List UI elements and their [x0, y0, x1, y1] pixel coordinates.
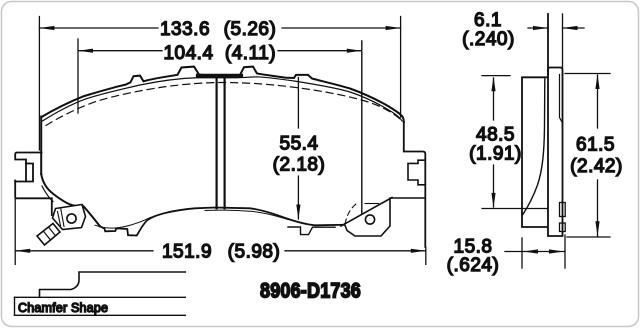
dim 151.9 arrows	[15, 249, 426, 253]
svg-text:(2.18): (2.18)	[273, 155, 326, 176]
svg-text:104.4: 104.4	[163, 43, 213, 64]
svg-text:133.6: 133.6	[160, 19, 210, 40]
wear sensor plate	[53, 205, 86, 230]
side view shim line	[560, 75, 563, 124]
chamfer profile	[40, 272, 186, 297]
dim 48.5 top extension	[482, 75, 510, 77]
dim 15.8 line	[505, 251, 565, 253]
pad bottom-left corner curve	[41, 174, 100, 226]
pad top apex thick bar	[198, 74, 241, 78]
svg-text:151.9: 151.9	[162, 242, 212, 263]
svg-text:48.5: 48.5	[476, 125, 515, 146]
friction corner dashed arc	[345, 204, 356, 224]
dim 15.8 arrows	[523, 249, 564, 253]
pad right edge	[404, 122, 426, 247]
svg-text:(.624): (.624)	[447, 255, 500, 276]
pad corner inner line	[42, 186, 53, 202]
svg-text:(.240): (.240)	[462, 29, 515, 50]
dim 133.6 left extension	[38, 17, 40, 151]
svg-text:55.4: 55.4	[280, 134, 319, 155]
svg-text:(5.26): (5.26)	[224, 19, 277, 40]
dim 104.4 line	[78, 50, 362, 52]
right inner step line	[390, 197, 425, 199]
dim 104.4 left extension	[77, 39, 79, 113]
svg-text:(5.98): (5.98)	[228, 242, 281, 263]
dim 61.5 line	[597, 75, 599, 236]
chamfer box left	[14, 297, 16, 315]
side view friction block	[522, 77, 548, 227]
wear sensor plate inner line	[58, 209, 65, 227]
dim 6.1 right extension	[562, 14, 564, 67]
dim 151.9 line	[15, 250, 426, 252]
right lug inner line	[365, 203, 379, 205]
side view backing plate	[548, 68, 563, 237]
left ear slot	[26, 164, 33, 182]
dim 6.1 left extension	[547, 14, 549, 67]
dim 6.1 arrows	[533, 26, 578, 30]
dim 61.5 bottom extension	[567, 236, 610, 238]
pad top edge inner line	[43, 77, 403, 121]
friction lower edge left	[95, 217, 151, 228]
lower-left step	[15, 181, 52, 216]
pad top hidden dashed line	[46, 83, 400, 126]
dim 133.6 right extension	[400, 17, 402, 118]
dim 48.5 line	[493, 78, 495, 207]
dim 48.5 bottom extension	[482, 208, 547, 210]
sensor crimp band slats	[44, 227, 56, 240]
dim 61.5 arrows	[595, 74, 599, 236]
dim 151.9 right extension	[425, 247, 427, 264]
right lug outline	[345, 199, 391, 236]
dim 133.6 arrows	[39, 26, 400, 30]
pad bottom edge	[100, 208, 345, 236]
side view friction curve	[523, 79, 545, 215]
dim 15.8 left extension	[521, 238, 523, 268]
dim 48.5 arrows	[491, 76, 495, 208]
pad bottom edge second line	[205, 210, 288, 219]
svg-text:Chamfer Shape: Chamfer Shape	[18, 301, 108, 315]
svg-text:(1.91): (1.91)	[469, 144, 522, 165]
dim 61.5 top extension	[565, 73, 610, 75]
friction bottom hidden edge	[288, 227, 335, 235]
center slot line right	[224, 77, 226, 209]
side view clip lower	[560, 223, 566, 232]
side view clip upper	[560, 203, 566, 217]
svg-text:(4.11): (4.11)	[225, 43, 276, 64]
pad top edge outer	[42, 67, 404, 122]
dim 55.4 line	[297, 78, 299, 220]
chamfer box top	[15, 296, 186, 298]
sensor crimp bands	[37, 224, 60, 246]
svg-text:(2.42): (2.42)	[570, 156, 623, 177]
dim 133.6 line	[39, 27, 400, 29]
right lug hole	[365, 215, 374, 224]
svg-text:61.5: 61.5	[576, 135, 615, 156]
wear sensor hole	[67, 214, 76, 223]
svg-text:8906-D1736: 8906-D1736	[260, 279, 361, 303]
left ear	[15, 153, 41, 183]
pad left edge	[40, 117, 42, 175]
dim 104.4 right extension / feature line	[361, 41, 363, 214]
side view plate top tab	[548, 68, 563, 75]
center slot line left	[216, 77, 218, 209]
dim 151.9 left extension	[14, 198, 16, 264]
dim 55.4 arrow	[296, 205, 300, 220]
svg-text:6.1: 6.1	[474, 10, 502, 31]
dim 15.8 right extension	[564, 235, 566, 268]
dim 104.4 arrows	[78, 49, 362, 53]
right edge notch	[408, 160, 425, 185]
chamfer box bottom	[15, 314, 186, 316]
right lug diagonal	[341, 198, 392, 227]
dim 6.1 line	[528, 27, 584, 29]
